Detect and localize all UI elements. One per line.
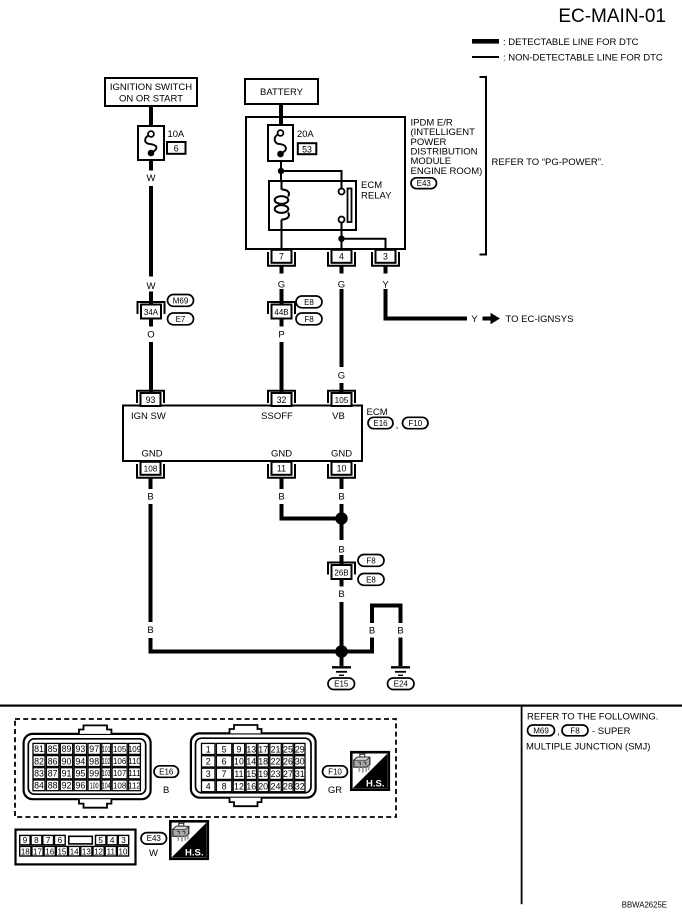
SMJ connector 26B [328,563,355,580]
wire coil to pin 7 [281,230,283,251]
svg-text:BATTERY: BATTERY [260,87,304,98]
ECM pin 32 [268,391,295,406]
svg-text:W: W [149,848,158,859]
svg-text:90: 90 [62,756,72,766]
legend detectable line sample [472,37,639,48]
svg-text:3: 3 [383,252,388,262]
svg-text:101: 101 [102,745,111,754]
svg-text:GND: GND [141,449,162,460]
comma (note) [557,727,560,738]
svg-text:26: 26 [283,757,293,767]
wire pin 4 to ECM VB [340,289,344,367]
wire color B (10) [338,492,344,503]
junction dot (B wires) [335,512,347,524]
right panel divider line [521,707,523,905]
svg-text:B: B [338,544,344,555]
svg-text:W: W [147,173,156,184]
svg-text:TO EC-IGNSYS: TO EC-IGNSYS [506,314,574,325]
connector E16 oval label (detail) [154,766,179,778]
svg-text:105: 105 [113,745,127,754]
svg-text:H.S.: H.S. [366,779,384,790]
svg-text:11: 11 [277,464,286,474]
battery box [245,79,318,104]
wire stub pin 7 [280,266,284,274]
wire junction to 26B [340,524,344,540]
svg-text:E8: E8 [304,298,314,307]
svg-text:H.S.: H.S. [185,848,203,859]
connector face E43 [16,830,136,865]
ECM pin 11 [268,462,295,478]
svg-text:103: 103 [102,769,111,778]
ECM name label [367,407,388,418]
junction dot below fuse 53 [278,168,284,174]
svg-text:99: 99 [89,769,99,779]
svg-text:10: 10 [337,464,347,474]
svg-text:23: 23 [271,769,281,779]
svg-text:B: B [147,492,153,503]
relay label [361,180,392,202]
svg-text:7: 7 [279,252,284,262]
svg-text:10: 10 [234,757,244,767]
wire 26B to ground junction [340,602,344,648]
svg-text:O: O [147,330,154,341]
wire color G (pin 4) [338,279,345,290]
connector E7 oval label [168,313,194,325]
svg-text:10A: 10A [168,128,185,139]
svg-text:17: 17 [258,744,268,754]
ECM relay box [269,181,356,230]
svg-text:: NON-DETECTABLE LINE FOR DTC: : NON-DETECTABLE LINE FOR DTC [503,53,663,64]
svg-text:26B: 26B [334,568,348,577]
wire stub above 34A [149,292,153,306]
bottom section separator line [0,705,682,707]
svg-text:- SUPER: - SUPER [592,726,631,737]
wire ignition switch to fuse 6 [149,106,153,127]
title EC-MAIN-01 [558,6,666,27]
relay contact [339,189,352,223]
svg-text:12: 12 [234,781,244,791]
svg-text:104: 104 [102,781,111,790]
svg-text:IGNITION SWITCH: IGNITION SWITCH [110,82,192,93]
svg-text:32: 32 [295,781,305,791]
IPDM E/R label [411,117,483,176]
svg-text:ECM: ECM [367,407,388,418]
connector F8 oval label (44B) [296,313,322,325]
svg-text:96: 96 [75,781,85,791]
svg-text:13: 13 [82,847,91,856]
svg-text:20A: 20A [297,128,314,139]
wire color G (VB) [338,371,345,382]
svg-text:83: 83 [34,769,44,779]
svg-text:5: 5 [222,744,227,754]
wire color Y (pin 3) [382,279,389,290]
wire battery to fuse 53 [279,104,283,126]
wire junction to E24 branch [342,606,401,652]
arrow to EC-IGNSYS [483,313,501,324]
SMJ connector 44B [268,302,295,319]
wire color B (above 26B) [338,544,344,555]
IPDM E/R box [246,117,405,249]
svg-text:E16: E16 [373,419,388,428]
refer bracket [480,77,487,255]
wire stub pin 4 [340,266,344,274]
svg-text:27: 27 [283,769,293,779]
svg-text:8: 8 [222,781,227,791]
svg-text:85: 85 [48,744,58,754]
wire fuse 6 to SMJ 34A [149,186,153,277]
IPDM pin 4 [328,250,355,266]
comma [396,420,399,431]
svg-text:18: 18 [258,757,268,767]
svg-text:87: 87 [48,769,58,779]
ground E24 oval label [388,678,415,690]
svg-text:15: 15 [246,769,256,779]
svg-text:29: 29 [295,744,305,754]
relay coil [275,181,289,230]
svg-text:RELAY: RELAY [361,191,392,202]
E16 color label B [163,785,169,796]
wire color B (branch right leg) [397,626,403,637]
wire stub below 44B [280,318,284,327]
svg-text:GND: GND [271,449,292,460]
ECM pin 93 [137,391,164,406]
svg-text:92: 92 [62,781,72,791]
fuse 53 (20A) [268,125,293,161]
svg-text:F8: F8 [570,726,580,735]
svg-text:10: 10 [119,847,128,856]
svg-text:E8: E8 [366,575,376,584]
connector E43 oval label [411,178,437,189]
ground junction dot [335,645,348,658]
svg-text:6: 6 [222,757,227,767]
svg-text:105: 105 [335,396,349,405]
svg-text:7: 7 [46,836,51,845]
svg-text:: DETECTABLE LINE FOR DTC: : DETECTABLE LINE FOR DTC [503,37,639,48]
svg-text:E43: E43 [147,834,162,843]
connector M69 oval label (note) [528,725,555,736]
svg-text:Y: Y [382,279,389,290]
svg-text:82: 82 [34,756,44,766]
svg-text:MULTIPLE JUNCTION (SMJ): MULTIPLE JUNCTION (SMJ) [526,742,650,753]
svg-text:22: 22 [271,757,281,767]
svg-text:32: 32 [277,395,287,405]
document number [622,901,667,910]
wire color P [278,330,284,341]
connector face E16 [24,725,151,807]
svg-text:EC-MAIN-01: EC-MAIN-01 [558,6,666,27]
svg-text:3: 3 [121,836,126,845]
wire contact to pins 4 and 3 [342,223,386,252]
svg-text:B: B [397,626,403,637]
connector F10 oval label (ECM) [403,417,429,428]
svg-text:G: G [338,279,345,290]
wire stub pin 3 [384,266,388,274]
svg-text:9: 9 [23,836,28,845]
svg-text:11: 11 [107,847,116,856]
wire stub pin 10 [340,479,344,490]
refer to the following text [527,712,658,723]
svg-text:E15: E15 [334,680,349,689]
svg-text:,: , [396,420,399,431]
svg-text:25: 25 [283,744,293,754]
svg-text:1: 1 [206,744,211,754]
wire pin 108 ground run [149,504,153,622]
svg-text:E7: E7 [176,315,186,324]
svg-text:3: 3 [206,769,211,779]
wire color B (left lower) [147,625,153,636]
svg-text:93: 93 [146,395,156,405]
svg-text:Y: Y [471,314,478,325]
svg-text:102: 102 [102,757,111,766]
svg-text:F10: F10 [328,767,342,776]
svg-text:31: 31 [295,769,305,779]
svg-text:84: 84 [34,781,44,791]
svg-text:107: 107 [113,769,127,778]
svg-text:8: 8 [34,836,39,845]
ECM box [123,406,362,462]
svg-text:IGN SW: IGN SW [131,411,166,422]
wire stub pin 11 [280,479,284,490]
svg-text:B: B [338,492,344,503]
svg-text:18: 18 [21,847,30,856]
TO EC-IGNSYS text [506,314,574,325]
svg-text:97: 97 [89,744,99,754]
svg-text:93: 93 [75,744,85,754]
wire color G (pin 7) [278,279,285,290]
ground symbol E15 [332,667,351,675]
wire stub pin 108 [149,479,153,490]
svg-text:P: P [278,330,284,341]
svg-text:B: B [338,589,344,600]
wire pin 10 to junction [340,504,344,524]
IPDM pin 7 [268,250,295,266]
wire stub below 34A [149,318,153,327]
ECM terminal labels [131,411,345,422]
svg-text:7: 7 [222,769,227,779]
svg-text:112: 112 [128,781,141,790]
svg-text:34A: 34A [144,308,159,317]
svg-text:30: 30 [295,757,305,767]
svg-text:28: 28 [283,781,293,791]
svg-text:4: 4 [339,252,344,262]
svg-text:SSOFF: SSOFF [261,411,293,422]
H.S. logo (E43) [170,821,208,859]
svg-text:E16: E16 [159,767,174,776]
svg-text:M69: M69 [173,296,189,305]
svg-text:14: 14 [70,847,79,856]
H.S. logo (F10) [351,752,389,790]
ground E15 oval label [328,678,355,690]
svg-text:REFER TO “PG-POWER”.: REFER TO “PG-POWER”. [492,157,604,168]
svg-text:ECM: ECM [361,180,382,191]
fuse 6 (10A) [138,126,164,160]
wire color W upper [147,173,156,184]
svg-text:86: 86 [48,756,58,766]
wire pin 7 to 44B [280,289,284,305]
svg-text:89: 89 [62,744,72,754]
wire color Y (branch) [471,314,478,325]
wire to ground E24 [399,638,403,667]
wire fuse 53 to relay coil [280,161,282,182]
svg-text:4: 4 [110,836,115,845]
svg-text:109: 109 [128,745,142,754]
svg-text:F8: F8 [304,315,314,324]
refer to PG-POWER text [492,157,604,168]
svg-text:W: W [147,281,156,292]
svg-text:E43: E43 [417,179,432,188]
svg-text:B: B [163,785,169,796]
connector M69 oval label [168,295,194,307]
svg-text:BBWA2625E: BBWA2625E [622,901,667,910]
svg-text:88: 88 [48,781,58,791]
svg-text:100: 100 [90,781,99,790]
svg-text:16: 16 [45,847,54,856]
svg-text:95: 95 [75,769,85,779]
fuse 6 label 10A [168,128,185,139]
connector F8 oval label (26B) [358,555,384,567]
wire color B (108) [147,492,153,503]
svg-text:6: 6 [58,836,63,845]
connector F10 oval label (detail) [323,766,348,778]
wire to ground E15 [340,652,344,667]
svg-text:G: G [338,371,345,382]
fuse 53 label 20A [297,128,314,139]
svg-text:108: 108 [144,465,158,474]
wire stub above pin 105 [340,383,344,392]
svg-text:ON OR START: ON OR START [119,94,183,105]
wire color B (11) [278,492,284,503]
ECM pin 10 [328,462,355,478]
F10 color label GR [328,785,342,796]
svg-text:VB: VB [332,411,345,422]
svg-text:108: 108 [113,781,127,790]
ground symbol E24 [391,667,410,675]
svg-text:24: 24 [271,781,281,791]
svg-text:B: B [278,492,284,503]
svg-text:,: , [557,727,560,738]
svg-text:21: 21 [271,744,281,754]
svg-text:12: 12 [94,847,103,856]
svg-text:16: 16 [246,781,256,791]
wire junction to relay contact [281,171,342,189]
svg-text:B: B [147,625,153,636]
svg-text:13: 13 [246,744,256,754]
wire stub above 26B [340,555,344,566]
svg-text:94: 94 [75,756,85,766]
wire 44B to ECM pin 32 [280,342,284,392]
svg-text:110: 110 [128,757,141,766]
connector face F10 [191,725,316,806]
svg-text:20: 20 [258,781,268,791]
connector E43 oval label (detail) [141,833,167,845]
svg-text:6: 6 [174,143,179,153]
svg-text:9: 9 [236,744,241,754]
svg-text:53: 53 [302,144,312,154]
fuse 6 number box [167,142,186,154]
svg-text:GND: GND [331,449,352,460]
multiple junction text [526,742,650,753]
ECM GND labels [141,449,352,460]
svg-text:E24: E24 [394,680,409,689]
ignition switch box [105,78,197,106]
svg-text:98: 98 [89,756,99,766]
connector E16 oval label (ECM) [368,417,393,428]
svg-text:G: G [278,279,285,290]
connector F8 oval label (note) [562,725,588,736]
super text [592,726,631,737]
junction dot below relay contact [338,236,344,242]
wire pin 3 to EC-IGNSYS [386,289,468,319]
svg-text:81: 81 [34,744,44,754]
svg-text:F8: F8 [366,556,376,565]
svg-text:106: 106 [113,757,127,766]
legend non-detectable line sample [472,53,663,64]
svg-text:17: 17 [33,847,42,856]
wire color W lower [147,281,156,292]
E43 color label W [149,848,158,859]
ECM pin 108 [137,462,164,478]
svg-text:14: 14 [246,757,256,767]
svg-text:111: 111 [128,769,141,778]
svg-text:2: 2 [206,757,211,767]
wire stub below fuse 6 [149,160,153,171]
svg-text:11: 11 [234,769,243,779]
svg-text:GR: GR [328,785,342,796]
wire color O [147,330,154,341]
connector E8 oval label (44B) [296,296,322,308]
wire stub below 26B [340,579,344,587]
wire left to ground junction [151,638,342,652]
svg-text:B: B [369,626,375,637]
svg-text:19: 19 [258,769,268,779]
SMJ connector 34A [138,302,165,319]
wire 34A to ECM pin 93 [149,342,153,392]
fuse 53 number box [298,143,317,154]
svg-text:91: 91 [62,769,72,779]
svg-text:4: 4 [206,781,211,791]
svg-text:F10: F10 [408,419,422,428]
svg-text:44B: 44B [274,308,288,317]
svg-text:REFER TO THE FOLLOWING.: REFER TO THE FOLLOWING. [527,712,658,723]
svg-text:ENGINE ROOM): ENGINE ROOM) [411,166,483,177]
wire color B (branch left leg) [369,626,375,637]
wire pin 11 to junction [282,504,342,519]
wire color B (below 26B) [338,589,344,600]
svg-text:15: 15 [57,847,66,856]
svg-text:5: 5 [98,836,103,845]
ECM pin 105 [328,391,355,406]
svg-text:M69: M69 [533,726,549,735]
IPDM pin 3 [372,250,399,266]
connector E8 oval label (26B) [358,574,384,586]
dashed connector detail box [15,719,396,817]
